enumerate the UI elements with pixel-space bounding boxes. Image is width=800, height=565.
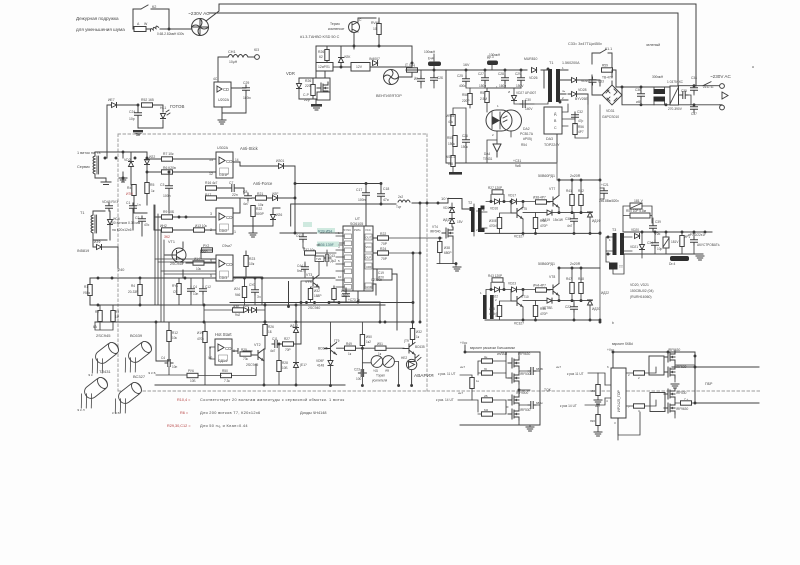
svg-text:С9: С9: [173, 290, 177, 294]
svg-text:R4: R4: [131, 284, 135, 288]
svg-text:С24: С24: [129, 110, 135, 114]
svg-text:R52 165: R52 165: [141, 98, 154, 102]
svg-text:И1З 10к: И1З 10к: [195, 224, 207, 228]
svg-text:СУ0: СУ0: [249, 283, 255, 287]
svg-text:усилителя: усилителя: [372, 379, 388, 383]
svg-text:Т2: Т2: [468, 201, 472, 205]
svg-text:2SC945: 2SC945: [96, 333, 111, 338]
svg-text:2: 2: [638, 376, 640, 380]
svg-text:1к: 1к: [476, 379, 480, 383]
svg-text:2: 2: [562, 96, 564, 100]
svg-text:DA2: DA2: [523, 127, 530, 131]
svg-text:К Э Б: К Э Б: [112, 411, 120, 415]
svg-text:990: 990: [590, 419, 595, 423]
svg-text:компенсат: компенсат: [328, 27, 345, 31]
svg-text:Anti-Force: Anti-Force: [253, 181, 273, 186]
svg-text:R36 139F: R36 139F: [318, 243, 335, 247]
svg-text:(Т9: (Т9: [404, 339, 409, 343]
svg-text:13: 13: [209, 158, 213, 162]
svg-text:R55: R55: [447, 136, 453, 140]
svg-text:VD17: VD17: [508, 194, 516, 198]
svg-text:2SC945: 2SC945: [246, 363, 258, 367]
svg-text:2SC940: 2SC940: [308, 306, 320, 310]
svg-text:пь: пь: [562, 89, 566, 93]
svg-text:Тцт: Тцт: [396, 205, 402, 209]
svg-text:Для 200 витков Т7, К20х12х6: Для 200 витков Т7, К20х12х6: [200, 410, 261, 415]
svg-text:DA3: DA3: [546, 137, 553, 141]
svg-text:10: 10: [338, 275, 342, 279]
svg-text:15х1W: 15х1W: [553, 218, 563, 222]
svg-text:IRF9000: IRF9000: [516, 391, 528, 395]
svg-text:С32: С32: [577, 110, 583, 114]
svg-text:~230V AC: ~230V AC: [710, 74, 731, 79]
svg-text:С9чи7: С9чи7: [222, 244, 232, 248]
svg-text:270-390V: 270-390V: [668, 107, 683, 111]
svg-text:IRF540: IRF540: [430, 230, 441, 234]
svg-text:181 V: 181 V: [634, 199, 644, 203]
svg-text:62: 62: [319, 55, 323, 59]
svg-text:И1Ф: И1Ф: [197, 331, 204, 335]
svg-text:к раз. 11 UТ: к раз. 11 UТ: [438, 372, 456, 376]
svg-text:5: 5: [338, 259, 340, 263]
svg-text:Термо: Термо: [330, 22, 340, 26]
svg-text:И2К: И2К: [344, 55, 350, 59]
svg-text:Т1: Т1: [549, 61, 553, 65]
svg-text:2х2: 2х2: [398, 195, 403, 199]
svg-text:И22: И22: [149, 155, 155, 159]
svg-text:Т3: Т3: [612, 228, 616, 232]
svg-text:70Р: 70Р: [381, 257, 388, 261]
svg-text:Hot Start: Hot Start: [215, 332, 232, 337]
svg-text:7.3к: 7.3к: [224, 379, 230, 383]
svg-text:R17: R17: [205, 193, 211, 197]
svg-text:0.68-2.82мкН 630v: 0.68-2.82мкН 630v: [157, 32, 185, 36]
svg-text:9и8: 9и8: [515, 164, 521, 168]
svg-text:VT3: VT3: [306, 273, 312, 277]
svg-text:U302А: U302А: [217, 146, 229, 150]
svg-text:1: 1: [483, 208, 485, 212]
svg-text:зеленый: зеленый: [646, 43, 660, 47]
svg-text:С4: С4: [161, 356, 165, 360]
svg-text:PWG: PWG: [354, 228, 361, 232]
svg-text:VD16: VD16: [490, 207, 498, 211]
svg-text:R16 4к7: R16 4к7: [205, 181, 218, 185]
svg-text:100мкН: 100мкН: [424, 50, 436, 54]
svg-text:470Р: 470Р: [540, 312, 547, 316]
svg-text:100: 100: [356, 377, 362, 381]
svg-text:IRF9630: IRF9630: [668, 348, 680, 352]
svg-text:4н7: 4н7: [567, 224, 573, 228]
svg-text:R58: R58: [462, 93, 468, 97]
svg-text:ИД22: ИД22: [601, 291, 609, 295]
svg-text:20-33Р: 20-33Р: [128, 290, 138, 294]
svg-text:ИН2: ИН2: [160, 224, 167, 228]
svg-text:С1: С1: [126, 201, 130, 205]
svg-text:С3: С3: [160, 183, 164, 187]
svg-text:7: 7: [234, 277, 236, 281]
svg-text:VT10: VT10: [521, 295, 529, 299]
svg-text:И: И: [508, 90, 510, 94]
svg-text:С26: С26: [462, 134, 468, 138]
svg-text:ИД20: ИД20: [592, 307, 600, 311]
svg-text:С25: С25: [457, 74, 463, 78]
svg-text:СН1: СН1: [228, 50, 236, 54]
svg-text:IRF9630: IRF9630: [518, 352, 530, 356]
svg-text:Соответствует 20 вольтам ампли: Соответствует 20 вольтам амплитуды с сер…: [200, 397, 345, 402]
svg-text:10Б: 10Б: [190, 379, 196, 383]
svg-text:VD14: VD14: [443, 206, 451, 210]
svg-text:3: 3: [476, 209, 478, 213]
svg-text:R4: R4: [127, 186, 131, 190]
svg-text:10к: 10к: [172, 336, 178, 340]
svg-text:ИД15: ИД15: [443, 218, 451, 222]
svg-text:R26: R26: [268, 325, 274, 329]
svg-text:4и7: 4и7: [243, 202, 249, 206]
svg-text:22н: 22н: [232, 193, 238, 197]
svg-text:680Р: 680Р: [444, 251, 451, 255]
svg-text:10μН: 10μН: [229, 60, 238, 64]
svg-text:10р: 10р: [657, 247, 663, 251]
svg-text:10 V: 10 V: [441, 196, 450, 201]
svg-text:R7 10к: R7 10к: [163, 152, 174, 156]
svg-text:500Р: 500Р: [256, 212, 265, 216]
svg-text:Еч4: Еч4: [428, 57, 434, 61]
svg-text:ТТ: ТТ: [619, 265, 623, 269]
svg-text:10н: 10н: [172, 365, 178, 369]
svg-text:VD23: VD23: [508, 282, 516, 286]
svg-text:VD27 UF4007: VD27 UF4007: [516, 91, 536, 95]
svg-text:100н: 100н: [358, 198, 366, 202]
svg-text:С4: С4: [193, 285, 197, 289]
svg-text:181V: 181V: [671, 240, 679, 244]
svg-text:С2190и: С2190и: [371, 278, 382, 282]
svg-text:С17: С17: [356, 188, 362, 192]
svg-text:R28: R28: [282, 361, 288, 365]
svg-text:)Т 47Ц: )Т 47Ц: [405, 63, 415, 67]
svg-text:VD26: VD26: [529, 76, 538, 80]
svg-text:2: 2: [476, 228, 478, 232]
svg-text:VT2: VT2: [254, 343, 261, 347]
svg-text:вариант SКВd: вариант SКВd: [612, 342, 633, 346]
svg-text:С28: С28: [498, 72, 504, 76]
svg-text:R29,30,С12 =: R29,30,С12 =: [167, 424, 191, 428]
svg-text:С: С: [359, 18, 362, 22]
svg-text:СД14: СД14: [218, 359, 227, 363]
svg-text:#С327: #С327: [514, 235, 524, 239]
svg-text:2х6.8Вм/820х: 2х6.8Вм/820х: [599, 199, 619, 203]
svg-text:И26: И26: [276, 213, 282, 217]
svg-text:12V: 12V: [356, 65, 363, 69]
svg-text:140V: 140V: [525, 107, 533, 111]
svg-text:R25: R25: [241, 348, 247, 352]
svg-text:R6 =: R6 =: [180, 411, 189, 415]
svg-text:ЗК2: ЗК2: [164, 235, 170, 239]
svg-text:2х20R: 2х20R: [570, 174, 581, 178]
svg-text:R54: R54: [521, 143, 527, 147]
svg-text:150CBU02 (04): 150CBU02 (04): [630, 289, 654, 293]
svg-text:DA4: DA4: [484, 152, 490, 156]
svg-text:70Р: 70Р: [285, 348, 291, 352]
svg-text:И51: И51: [377, 342, 383, 346]
svg-text:для уменьшения шума: для уменьшения шума: [76, 27, 125, 32]
svg-text:10к: 10к: [249, 262, 255, 266]
svg-text:Anti-Stick: Anti-Stick: [240, 146, 259, 151]
svg-text:ИЗ01: ИЗ01: [276, 159, 284, 163]
svg-text:НЕ2: НЕ2: [401, 356, 407, 360]
svg-text:R43 120Р: R43 120Р: [488, 274, 502, 278]
svg-text:С12: С12: [205, 285, 211, 289]
svg-text:Ю: Ю: [484, 367, 487, 371]
svg-text:400и: 400и: [459, 84, 466, 88]
svg-text:7 +: 7 +: [684, 397, 689, 401]
svg-text:С29: С29: [243, 81, 249, 85]
svg-text:инЛАЙ: инЛАЙ: [497, 352, 508, 356]
svg-text:Др.3: Др.3: [487, 55, 494, 59]
svg-text:VCC: VCC: [366, 245, 372, 249]
svg-text:70Р: 70Р: [381, 242, 388, 246]
svg-text:С29: С29: [515, 72, 521, 76]
svg-text:4Р7: 4Р7: [578, 130, 584, 134]
svg-text:R50: R50: [222, 369, 228, 373]
svg-text:240: 240: [118, 268, 124, 272]
svg-text:С30: С30: [525, 98, 531, 102]
svg-text:470И: 470И: [489, 312, 497, 316]
svg-text:680Б: 680Б: [536, 367, 543, 371]
svg-text:16V: 16V: [463, 63, 470, 67]
svg-text:12иРЛ1: 12иРЛ1: [318, 65, 330, 69]
svg-text:R12: R12: [172, 331, 178, 335]
svg-text:6: 6: [607, 365, 609, 369]
svg-text:ТЛ431: ТЛ431: [99, 369, 111, 374]
svg-text:С38: С38: [565, 217, 571, 221]
svg-text:ИЗФ: ИЗФ: [94, 240, 101, 244]
svg-text:U202А: U202А: [218, 98, 230, 102]
svg-text:R49: R49: [346, 342, 352, 346]
svg-text:220Р: 220Р: [462, 99, 469, 103]
svg-text:ИЕ7: ИЕ7: [108, 98, 115, 102]
svg-text:+С21: +С21: [601, 183, 609, 187]
svg-text:188Р: 188Р: [314, 294, 321, 298]
svg-text:#С327: #С327: [514, 322, 524, 326]
svg-text:VD2: VD2: [124, 158, 131, 162]
svg-text:980: 980: [590, 389, 595, 393]
svg-text:R10,4 =: R10,4 =: [177, 398, 191, 402]
svg-text:CD1F: CD1F: [219, 173, 229, 177]
svg-text:Дежурная подружка: Дежурная подружка: [76, 16, 119, 21]
svg-text:R9 10Б: R9 10Б: [163, 210, 175, 214]
svg-text:2Б: 2Б: [484, 394, 488, 398]
svg-text:VD20, VD21: VD20, VD21: [630, 283, 649, 287]
svg-text:иР7 2/22х1т: иР7 2/22х1т: [688, 233, 706, 237]
svg-text:С19: С19: [378, 271, 384, 275]
svg-text:R22: R22: [380, 232, 386, 236]
svg-text:а: а: [752, 65, 754, 69]
svg-text:IN5819: IN5819: [77, 249, 89, 253]
svg-text:Для 50 гц, и Клап=0.44: Для 50 гц, и Клап=0.44: [200, 423, 248, 428]
svg-text:R3: R3: [115, 310, 119, 314]
svg-text:И7Н: И7Н: [126, 192, 133, 196]
svg-text:R22: R22: [256, 207, 262, 211]
svg-text:IRF530: IRF530: [676, 391, 687, 395]
svg-text:R5: R5: [150, 183, 154, 187]
svg-text:VT5: VT5: [521, 207, 527, 211]
svg-text:1.5К0200А: 1.5К0200А: [562, 61, 580, 65]
svg-text:R1: R1: [84, 285, 88, 289]
svg-text:ВС327: ВС327: [133, 374, 146, 379]
svg-text:OUT: OUT: [366, 236, 372, 240]
svg-text:С33: С33: [598, 80, 604, 84]
svg-text:Тэрап: Тэрап: [376, 374, 385, 378]
svg-text:С22: С22: [565, 305, 571, 309]
svg-text:~230V AC: ~230V AC: [188, 11, 210, 17]
svg-text:150V: 150V: [516, 84, 524, 88]
svg-text:1: 1: [497, 104, 499, 108]
svg-text:И32: И32: [416, 330, 422, 334]
svg-text:1: 1: [609, 238, 611, 242]
svg-text:С2Б: С2Б: [437, 76, 443, 80]
svg-text:VCC: VCC: [365, 228, 371, 232]
svg-text:946: 946: [235, 293, 241, 297]
svg-text:MUR810: MUR810: [524, 57, 537, 61]
svg-text:1 0375+ХС: 1 0375+ХС: [667, 80, 684, 84]
svg-text:к раз 11 UТ: к раз 11 UТ: [567, 372, 584, 376]
svg-text:IN4007: IN4007: [369, 57, 380, 61]
svg-text:5: 5: [210, 274, 212, 278]
svg-text:М2: М2: [484, 408, 488, 412]
svg-text:1к2: 1к2: [366, 340, 371, 344]
svg-text:2: 2: [210, 228, 212, 232]
svg-text:на К20х12х6: на К20х12х6: [112, 228, 132, 232]
svg-text:ИД1Ф: ИД1Ф: [592, 219, 601, 223]
svg-text:РУ6: РУ6: [188, 369, 194, 373]
svg-text:ИВ: ИВ: [385, 369, 389, 373]
svg-text:РСВ17А: РСВ17А: [520, 132, 534, 136]
svg-text:VD31: VD31: [606, 109, 615, 113]
svg-text:R24: R24: [380, 247, 386, 251]
svg-text:Ю3: Ю3: [254, 48, 259, 52]
svg-text:R59: R59: [602, 64, 608, 68]
svg-text:#1.3-ТАНВО KSD 50 С: #1.3-ТАНВО KSD 50 С: [300, 35, 340, 39]
svg-text:47и: 47и: [144, 223, 150, 227]
svg-text:С11: С11: [272, 337, 278, 341]
svg-text:R27 120Р: R27 120Р: [488, 186, 502, 190]
svg-text:2: 2: [492, 133, 494, 137]
svg-text:ТQК: ТQК: [544, 388, 551, 392]
svg-text:10Б: 10Б: [282, 366, 288, 370]
svg-text:9ч2: 9ч2: [235, 313, 240, 317]
svg-text:300мкН: 300мкН: [652, 75, 664, 79]
svg-text:4С: 4С: [213, 77, 218, 81]
svg-text:1к: 1к: [151, 189, 155, 193]
svg-text:VD20: VD20: [631, 228, 639, 232]
svg-text:OLP: OLP: [366, 256, 372, 260]
svg-text:И24: И24: [234, 287, 240, 291]
svg-text:GND: GND: [366, 285, 372, 289]
svg-text:6А: 6А: [93, 325, 98, 329]
svg-text:С7: С7: [229, 181, 233, 185]
svg-text:ин7: ин7: [460, 365, 465, 369]
svg-text:10к: 10к: [196, 267, 202, 271]
svg-text:2.5М: 2.5М: [480, 97, 487, 101]
svg-text:VD21: VD21: [630, 245, 638, 249]
svg-text:3: 3: [210, 212, 212, 216]
svg-text:ИД: ИД: [374, 369, 378, 373]
svg-text:73к: 73к: [243, 357, 249, 361]
svg-text:47и: 47и: [383, 198, 389, 202]
svg-text:Э К Л: Э К Л: [77, 408, 85, 412]
svg-text:ЙГ: ЙГ: [414, 77, 418, 81]
svg-text:С8: С8: [243, 190, 247, 194]
svg-text:Dr.4: Dr.4: [669, 262, 675, 266]
svg-text:3: 3: [614, 421, 616, 425]
svg-text:С38: С38: [691, 76, 697, 80]
svg-text:ПБР: ПБР: [705, 382, 713, 386]
svg-text:UТ: UТ: [355, 217, 361, 221]
svg-text:С41: С41: [296, 234, 302, 238]
svg-text:R26: R26: [318, 50, 324, 54]
svg-text:ин7: ин7: [556, 365, 561, 369]
svg-text:Диоды ЧН4148: Диоды ЧН4148: [300, 411, 326, 415]
svg-text:1к: 1к: [416, 335, 420, 339]
svg-text:С23: С23: [354, 368, 360, 372]
svg-text:вариант раскачки большовики: вариант раскачки большовики: [470, 346, 515, 350]
svg-text:ИР2425_ГОР: ИР2425_ГОР: [617, 389, 621, 412]
svg-text:С34: С34: [647, 241, 653, 245]
svg-text:VDR: VDR: [286, 71, 295, 76]
svg-text:R26: R26: [305, 79, 311, 83]
svg-text:к раз 14 UТ: к раз 14 UТ: [560, 404, 577, 408]
svg-text:50В60РД1: 50В60РД1: [538, 174, 555, 178]
svg-text:HL1: HL1: [160, 106, 166, 110]
svg-text:2х20R: 2х20R: [570, 262, 581, 266]
svg-text:ГДч2: ГДч2: [329, 259, 336, 263]
svg-text:VT8: VT8: [549, 275, 555, 279]
svg-text:И50: И50: [366, 335, 372, 339]
svg-text:ТОР224Y: ТОР224Y: [544, 143, 560, 147]
svg-text:4и7: 4и7: [270, 349, 276, 353]
svg-text:#Р05ј: #Р05ј: [523, 137, 532, 141]
svg-text:1: 1: [234, 230, 236, 234]
svg-text:И45: И45: [489, 307, 495, 311]
svg-text:2SC945: 2SC945: [170, 262, 183, 266]
svg-text:URF: URF: [366, 265, 372, 269]
svg-text:470И: 470И: [489, 224, 497, 228]
svg-text:ЧЕТВБ: ЧЕТВБ: [542, 306, 552, 310]
svg-text:ИД12: ИД12: [290, 324, 298, 328]
svg-text:SYNC: SYNC: [344, 228, 352, 232]
svg-text:5н47: 5н47: [297, 269, 304, 273]
svg-text:50В60РД1: 50В60РД1: [538, 262, 555, 266]
svg-text:Сервис: Сервис: [77, 165, 90, 169]
svg-text:С27: С27: [478, 72, 484, 76]
svg-text:150к: 150к: [448, 142, 455, 146]
svg-text:С35: С35: [681, 89, 687, 93]
svg-text:ИЧ4-4Р7: ИЧ4-4Р7: [533, 284, 546, 288]
svg-text:47р: 47р: [578, 119, 584, 123]
svg-text:У55к: У55к: [83, 291, 91, 295]
svg-text:IRF9630: IRF9630: [676, 407, 688, 411]
svg-text:W: W: [144, 22, 148, 26]
svg-text:R2: R2: [95, 310, 99, 314]
svg-text:10р: 10р: [129, 117, 135, 121]
svg-text:1н: 1н: [137, 203, 141, 207]
svg-text:VT7: VT7: [549, 187, 555, 191]
svg-text:Э К: Э К: [88, 373, 93, 377]
svg-text:С33= 3х47ТЦи450v: С33= 3х47ТЦи450v: [568, 42, 602, 46]
svg-text:VD28: VD28: [578, 88, 587, 92]
svg-text:С-Р: С-Р: [303, 93, 310, 97]
svg-text:С43: С43: [329, 254, 335, 258]
